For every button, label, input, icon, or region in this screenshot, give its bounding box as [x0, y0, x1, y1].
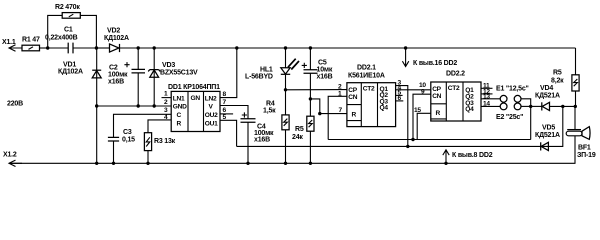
svg-text:R3 13к: R3 13к — [154, 138, 176, 145]
svg-text:R: R — [352, 112, 357, 119]
svg-text:15: 15 — [414, 107, 421, 114]
capacitor C2 — [108, 48, 145, 106]
svg-text:DD2.2: DD2.2 — [446, 71, 465, 78]
svg-text:C: C — [177, 112, 182, 119]
node VD5 riser — [561, 105, 564, 108]
svg-text:R5: R5 — [553, 70, 562, 77]
arrow K vyv.8 DD2 — [443, 150, 493, 165]
svg-text:DD1 КР1064ПП1: DD1 КР1064ПП1 — [168, 84, 220, 91]
svg-text:VD4: VD4 — [540, 85, 553, 92]
node Q1riser/buzzer line — [406, 145, 409, 148]
bottom rail — [9, 162, 576, 164]
svg-text:HL1: HL1 — [260, 67, 273, 74]
IC DD1 KR1064PP1 — [168, 84, 220, 132]
DD1 pin 6 stub — [220, 107, 233, 114]
jumper E2 — [496, 103, 531, 121]
diode VD1 — [58, 48, 101, 106]
node HL1 top — [284, 46, 287, 49]
node A — [46, 46, 49, 49]
ground rail (mid) — [97, 105, 172, 107]
svg-text:R5: R5 — [295, 126, 304, 133]
svg-text:КД521А: КД521А — [535, 93, 560, 100]
svg-text:0,15: 0,15 — [122, 137, 135, 144]
node VD1/gnd — [95, 104, 98, 107]
arrow K vyv.16 DD2 — [402, 48, 457, 67]
svg-text:0,22x400В: 0,22x400В — [45, 35, 78, 42]
svg-text:GN: GN — [191, 95, 201, 102]
node E/VD4 — [529, 105, 532, 108]
svg-text:DD2.1: DD2.1 — [357, 65, 376, 72]
node VD3 bottom — [153, 104, 156, 107]
svg-text:КД102А: КД102А — [104, 35, 129, 42]
svg-text:CP: CP — [348, 87, 357, 94]
node DD1 pin8 rail — [235, 46, 238, 49]
wire node A to C1 — [48, 47, 68, 49]
svg-text:Q4: Q4 — [465, 106, 474, 113]
svg-text:BF1: BF1 — [578, 145, 591, 152]
wire DD2.1 CN to reset line — [328, 96, 347, 139]
svg-text:LN1: LN1 — [173, 95, 185, 102]
capacitor C4 — [241, 112, 275, 163]
svg-text:14: 14 — [483, 101, 490, 108]
diode VD2 — [96, 28, 138, 53]
svg-text:L-56BYD: L-56BYD — [245, 74, 273, 81]
node R5 bottom — [309, 162, 312, 165]
svg-text:CN: CN — [348, 94, 357, 101]
svg-text:X1.2: X1.2 — [3, 152, 17, 159]
svg-text:К выв.16 DD2: К выв.16 DD2 — [413, 60, 457, 67]
DD2.2 Q2 pin12 stub — [481, 88, 493, 95]
svg-text:24к: 24к — [292, 134, 303, 141]
capacitor C5 — [302, 48, 333, 99]
counter DD2.2 — [431, 71, 481, 122]
DD2.1 Q1 pin3 wire down — [396, 80, 408, 147]
svg-text:CT2: CT2 — [363, 86, 375, 93]
capacitor C1 — [45, 27, 96, 54]
svg-text:CN: CN — [432, 93, 441, 100]
svg-text:VD2: VD2 — [107, 28, 120, 35]
DD1 pin 3 wire to C3 — [114, 107, 172, 137]
resistor R2 loop — [48, 4, 97, 48]
svg-text:R: R — [436, 110, 441, 117]
svg-text:LN2: LN2 — [205, 95, 217, 102]
svg-text:CP: CP — [432, 86, 441, 93]
svg-text:VD5: VD5 — [542, 125, 555, 132]
node K vyv16 — [404, 46, 407, 49]
svg-text:220В: 220В — [7, 101, 23, 108]
node HL1 bottom — [284, 88, 287, 91]
wire POR node to DD2.1 R pin7 — [310, 99, 347, 114]
DD1 pin 1 stub — [162, 91, 172, 98]
buzzer BF1 — [566, 106, 596, 163]
diode VD5 — [535, 125, 560, 151]
svg-text:R1 47: R1 47 — [22, 37, 40, 44]
DD1 pin 7 wire to C4 — [220, 99, 248, 119]
svg-text:C5: C5 — [318, 60, 327, 67]
svg-text:х16В: х16В — [317, 74, 333, 81]
svg-text:8,2к: 8,2к — [551, 78, 564, 85]
svg-text:BZX55C13V: BZX55C13V — [160, 70, 198, 77]
DD1 pin 4 wire to R3 — [148, 114, 171, 133]
svg-text:OU1: OU1 — [205, 121, 218, 128]
svg-text:13: 13 — [483, 94, 490, 101]
svg-text:CT2: CT2 — [448, 85, 460, 92]
svg-text:х16В: х16В — [108, 79, 124, 86]
connector X1.2 arrow — [3, 152, 22, 167]
reset line — [328, 139, 531, 141]
svg-text:100мк: 100мк — [108, 72, 128, 79]
jumper E1 — [496, 86, 531, 107]
svg-text:R4: R4 — [266, 101, 275, 108]
node C5/R5 — [309, 97, 312, 100]
node C2 bottom — [137, 104, 140, 107]
capacitor C3 — [108, 129, 135, 163]
svg-text:ЗП-19: ЗП-19 — [577, 152, 596, 159]
node R4 bottom — [284, 162, 287, 165]
resistor R6 (labeled R5 8,2k) — [551, 48, 579, 106]
svg-text:GND: GND — [173, 104, 187, 111]
DD2.2 R pin15 wire to reset — [414, 107, 431, 140]
svg-text:К561ИЕ10А: К561ИЕ10А — [348, 73, 385, 80]
svg-text:КД102А: КД102А — [58, 69, 83, 76]
clock wire HL1 node to DD2.1 CP — [286, 89, 347, 91]
power rail (top) — [138, 47, 575, 49]
LED HL1 — [245, 48, 299, 90]
node VD1 bottom — [95, 162, 98, 165]
diode VD4 — [531, 85, 576, 111]
svg-text:х16В: х16В — [254, 137, 270, 144]
wire R1 to node A — [40, 47, 48, 49]
connector X1.1 arrow — [2, 39, 22, 51]
resistor R5 — [292, 99, 314, 163]
svg-text:X1.1: X1.1 — [2, 39, 16, 46]
svg-text:C3: C3 — [123, 129, 132, 136]
DD1 pin 8 wire to rail — [220, 48, 237, 98]
wire VD1 to bottom rail — [96, 106, 98, 163]
svg-text:OU2: OU2 — [205, 112, 218, 119]
wire reset riser to E node (drawn with reset line) — [530, 106, 532, 139]
DD2.1 Q3 pin5 stub — [396, 90, 403, 97]
DD2.2 Q3 pin13 wire to E1 — [481, 94, 500, 101]
node B — [95, 46, 98, 49]
svg-text:E1 "12,5с": E1 "12,5с" — [496, 86, 529, 93]
node C4 bottom — [246, 162, 249, 165]
node R3 bottom — [146, 162, 149, 165]
svg-text:VD3: VD3 — [162, 62, 175, 69]
svg-text:1,5к: 1,5к — [263, 108, 276, 115]
svg-text:C2: C2 — [109, 65, 118, 72]
DD2.1 Q4 pin6 stub — [396, 95, 404, 102]
node C2 top — [137, 46, 140, 49]
svg-text:E2 "25с": E2 "25с" — [496, 114, 523, 121]
svg-text:R2 470к: R2 470к — [55, 4, 80, 11]
node VD3 top — [153, 46, 156, 49]
buzzer line from DD1 pin5 — [237, 106, 563, 146]
svg-text:C1: C1 — [64, 27, 73, 34]
svg-text:VD1: VD1 — [63, 62, 76, 69]
node R6 bottom — [574, 105, 577, 108]
DD2.2 CN pin9 wire to reset — [413, 89, 431, 140]
resistor R3 — [144, 133, 175, 164]
svg-text:10мк: 10мк — [317, 67, 333, 74]
svg-text:К выв.8 DD2: К выв.8 DD2 — [452, 152, 493, 159]
counter DD2.1 — [347, 65, 396, 127]
svg-text:КД521А: КД521А — [535, 132, 560, 139]
node C3 bottom — [112, 162, 115, 165]
zener VD3 — [148, 48, 198, 106]
node on R line — [318, 112, 321, 115]
DD1 pin 5 wire (to buzzer line) — [220, 114, 237, 146]
node pin9/reset — [411, 138, 414, 141]
resistor R4 — [263, 90, 289, 164]
node C5 top — [309, 46, 312, 49]
DD2.2 Q1 pin11 stub — [481, 83, 493, 90]
DD2.2 Q4 pin14 wire to E2 — [481, 101, 500, 108]
svg-text:R: R — [177, 121, 182, 128]
DD2.1 Q2 pin4 wire to DD2.2 CP pin10 — [396, 82, 431, 92]
svg-text:Q4: Q4 — [380, 105, 389, 112]
resistor R1 — [22, 37, 40, 51]
